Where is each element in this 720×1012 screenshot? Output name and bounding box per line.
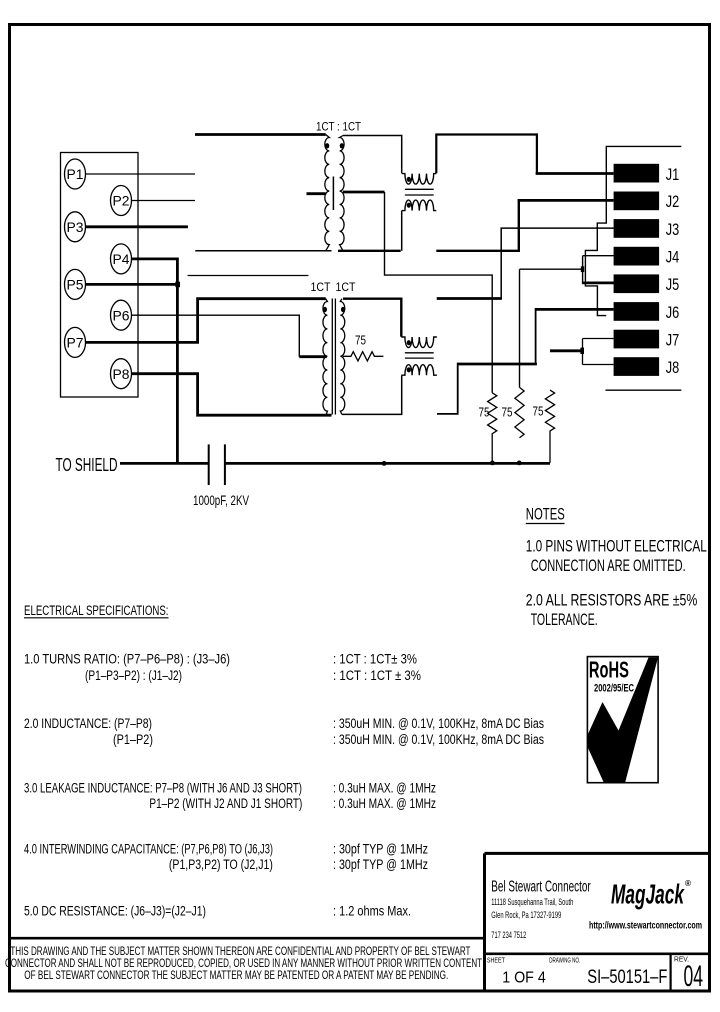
wire J2: [518, 199, 614, 202]
connector box P1-P8: [61, 153, 139, 398]
svg-text:NOTES: NOTES: [526, 505, 565, 523]
svg-text:P1–P2 (WITH J2 AND J1 SHORT): P1–P2 (WITH J2 AND J1 SHORT): [149, 796, 302, 811]
svg-text:P2: P2: [113, 194, 130, 209]
pin P3: [65, 212, 86, 242]
wire T1 primary top: [195, 133, 326, 136]
wire stub mid-left: [188, 275, 309, 277]
CH1 polarity dots: [407, 177, 411, 182]
svg-text:: 30pf TYP @ 1MHz: : 30pf TYP @ 1MHz: [333, 857, 428, 872]
pin P7: [65, 327, 86, 357]
svg-text:: 1CT : 1CT± 3%: : 1CT : 1CT± 3%: [333, 652, 417, 667]
wire P1: [86, 173, 196, 175]
svg-text:P1: P1: [67, 167, 84, 182]
svg-text:J1: J1: [666, 165, 680, 184]
svg-text:75: 75: [502, 406, 513, 420]
svg-text:75: 75: [479, 406, 490, 420]
pin P2: [111, 186, 132, 216]
pin P1: [65, 159, 86, 189]
wire J5: [582, 281, 614, 284]
svg-text:J5: J5: [666, 275, 680, 294]
wire shield left: [120, 462, 209, 465]
svg-text:DRAWING NO.: DRAWING NO.: [549, 955, 580, 964]
spec 5.0 dc resistance: [24, 904, 411, 919]
resistor R1 75: [488, 393, 497, 463]
svg-text:2002/95/EC: 2002/95/EC: [594, 683, 634, 695]
svg-text:: 1CT : 1CT ± 3%: : 1CT : 1CT ± 3%: [333, 668, 421, 683]
capacitor C1 plates: [209, 444, 225, 485]
pin P4: [111, 244, 132, 274]
svg-text:P5: P5: [67, 278, 84, 293]
svg-text:75: 75: [533, 405, 544, 419]
wire bottom box line: [606, 389, 682, 391]
resistor 75 at T2 center tap: [343, 352, 383, 361]
wire J6 tail: [437, 363, 458, 414]
wire R2 riser: [519, 269, 521, 387]
pin P6: [111, 300, 132, 330]
svg-text:P6: P6: [113, 308, 130, 323]
transformer T1 primary winding: [325, 135, 330, 251]
wire T1 primary center tap: [307, 192, 326, 195]
svg-text:(P1–P3–P2) : (J1–J2): (P1–P3–P2) : (J1–J2): [85, 668, 182, 683]
svg-text:ELECTRICAL SPECIFICATIONS:: ELECTRICAL SPECIFICATIONS:: [24, 603, 169, 618]
svg-text:4.0 INTERWINDING CAPACITANCE:: 4.0 INTERWINDING CAPACITANCE: (P7,P6,P8)…: [24, 842, 273, 857]
RoHS logo box: [587, 657, 658, 783]
wire T1 secondary bottom to choke: [401, 211, 403, 251]
wire P5: [86, 283, 178, 286]
spec 3.0 leakage inductance: [24, 781, 436, 812]
transformer T1 core: [332, 177, 334, 211]
svg-text:1CT : 1CT: 1CT : 1CT: [316, 120, 362, 134]
wire P4 to shield: [132, 259, 178, 464]
junction J4/J5: [581, 266, 584, 272]
svg-text:P3: P3: [67, 220, 84, 235]
svg-text:P8: P8: [113, 367, 130, 382]
pin P5: [65, 269, 86, 299]
wire choke CH1 to J1: [436, 135, 537, 174]
CH2 polarity dots: [407, 340, 411, 345]
wire choke CH1 bottom to J2 riser: [436, 200, 519, 250]
wire to J4/J5 junction: [520, 268, 583, 270]
svg-text:®: ®: [685, 879, 691, 888]
svg-text:(P1,P3,P2) TO (J2,J1): (P1,P3,P2) TO (J2,J1): [169, 857, 273, 872]
svg-text:: 0.3uH MAX. @ 1MHz: : 0.3uH MAX. @ 1MHz: [333, 781, 436, 796]
transformer T1 secondary winding: [340, 136, 345, 251]
svg-text:J7: J7: [666, 330, 680, 349]
svg-text:SHEET: SHEET: [487, 955, 505, 964]
wire P3: [86, 225, 188, 228]
wire J4: [583, 255, 614, 257]
wire T2 secondary top to choke CH2: [343, 299, 401, 337]
choke CH2 top winding: [401, 337, 437, 348]
wire J1: [536, 172, 614, 175]
svg-text:J3: J3: [666, 220, 680, 239]
junction shield at R1: [490, 461, 495, 466]
svg-text:TO SHIELD: TO SHIELD: [56, 455, 118, 475]
svg-text:11118 Susquehanna Trail, South: 11118 Susquehanna Trail, South: [491, 897, 573, 908]
wire to choke CH2 top right: [437, 297, 502, 300]
svg-text:1CT: 1CT: [311, 280, 332, 294]
disclaimer box top: [8, 937, 485, 940]
svg-text:J2: J2: [666, 192, 680, 211]
svg-text:3.0 LEAKAGE INDUCTANCE: P7–: 3.0 LEAKAGE INDUCTANCE: P7–P8 (WITH J6 A…: [24, 781, 302, 796]
wire J7/J8 bracket: [582, 339, 584, 365]
svg-text:: 1.2 ohms Max.: : 1.2 ohms Max.: [333, 904, 411, 919]
svg-text:J6: J6: [666, 303, 680, 322]
wire J7: [583, 338, 614, 340]
svg-text:1000pF, 2KV: 1000pF, 2KV: [193, 492, 249, 508]
svg-text:J8: J8: [666, 358, 680, 377]
T1 polarity dots: [325, 143, 329, 148]
wire J7/J8 stub: [550, 349, 582, 352]
svg-text:717 234 7512: 717 234 7512: [491, 930, 526, 941]
wire J3: [501, 228, 613, 298]
jack pads J1-J8: [614, 164, 660, 376]
wire T2 secondary bottom to choke CH2: [342, 376, 402, 415]
svg-text:RoHS: RoHS: [589, 657, 629, 683]
wire top box line and zigzag to J6 area: [585, 146, 681, 315]
svg-text:2.0 ALL RESISTORS ARE ±5%: 2.0 ALL RESISTORS ARE ±5%: [526, 592, 698, 610]
junction shield at x384: [382, 461, 387, 466]
wire P7 to T2 primary top: [86, 299, 326, 343]
pin P8: [111, 359, 132, 389]
svg-text:: 350uH MIN. @ 0.1V, 100KHz,: : 350uH MIN. @ 0.1V, 100KHz, 8mA DC Bias: [333, 716, 544, 731]
spec 2.0 inductance: [24, 716, 544, 747]
transformer T2 secondary winding: [340, 299, 345, 415]
disclaimer text: [5, 944, 482, 982]
svg-text:SI–50151–F: SI–50151–F: [587, 967, 667, 988]
resistor R2 75: [515, 387, 524, 437]
choke CH1 bottom winding: [402, 200, 437, 211]
svg-text:04: 04: [684, 960, 704, 993]
RoHS checkmark: [588, 658, 658, 784]
wire P8 to T2 primary bottom: [132, 374, 332, 416]
spec 4.0 interwinding capacitance: [24, 842, 428, 873]
wire T1 secondary center tap: [343, 191, 385, 194]
T2 polarity dots: [323, 307, 327, 312]
svg-text:http://www.stewartconnector.co: http://www.stewartconnector.com: [589, 920, 702, 932]
svg-text:J4: J4: [666, 248, 680, 267]
svg-text:2.0 INDUCTANCE: (P7–P8): 2.0 INDUCTANCE: (P7–P8): [24, 716, 152, 731]
svg-text:5.0 DC RESISTANCE: (J6–J3)=(J: 5.0 DC RESISTANCE: (J6–J3)=(J2–J1): [24, 904, 206, 919]
svg-text:75: 75: [355, 334, 366, 348]
svg-text:TOLERANCE.: TOLERANCE.: [531, 611, 598, 629]
wire shield right: [225, 462, 550, 465]
spec 1.0 turns ratio: [24, 652, 421, 684]
svg-text:OF BEL STEWART CONNECTOR THE: OF BEL STEWART CONNECTOR THE SUBJECT MAT…: [24, 968, 448, 982]
svg-text:: 350uH MIN. @ 0.1V, 100KHz,: : 350uH MIN. @ 0.1V, 100KHz, 8mA DC Bias: [333, 732, 544, 747]
transformer T2 core: [332, 299, 335, 415]
junction J7/J8: [580, 348, 584, 354]
choke CH2 core: [405, 353, 434, 358]
svg-text:1.0 TURNS RATIO: (P7–P6–P8): 1.0 TURNS RATIO: (P7–P6–P8) : (J3–J6): [24, 652, 230, 667]
junction P4/P5: [175, 282, 180, 288]
svg-text:1.0 PINS WITHOUT ELECTRICAL: 1.0 PINS WITHOUT ELECTRICAL: [526, 538, 707, 556]
svg-text:1 OF 4: 1 OF 4: [502, 970, 546, 987]
wire T1 bottom right: [338, 250, 401, 252]
svg-text:: 30pf TYP @ 1MHz: : 30pf TYP @ 1MHz: [333, 842, 428, 857]
choke CH1 top winding: [402, 174, 437, 185]
transformer T2 primary winding: [323, 299, 328, 416]
svg-text:Bel Stewart Connector: Bel Stewart Connector: [491, 879, 590, 896]
svg-text:: 0.3uH MAX. @ 1MHz: : 0.3uH MAX. @ 1MHz: [333, 796, 436, 811]
wire J8: [583, 364, 614, 366]
svg-text:P7: P7: [67, 336, 84, 351]
svg-text:Glen Rock, Pa 17327-9199: Glen Rock, Pa 17327-9199: [491, 910, 561, 921]
wire J6: [536, 308, 614, 311]
wire P6 to T2 center tap: [132, 315, 300, 357]
wire T1 bottom left: [195, 250, 331, 252]
resistor R3 75: [545, 390, 554, 463]
choke CH2 bottom winding: [401, 365, 437, 376]
svg-text:1CT: 1CT: [336, 280, 357, 294]
svg-text:MagJack: MagJack: [611, 879, 685, 910]
title block frame: [485, 853, 711, 991]
wire J4/J5 bracket: [582, 256, 584, 283]
wire T2 primary center tap: [299, 355, 327, 358]
svg-text:(P1–P2): (P1–P2): [113, 732, 153, 747]
wire T1 secondary top to choke: [343, 136, 402, 174]
choke CH1 core: [405, 189, 434, 195]
svg-text:CONNECTION ARE OMITTED.: CONNECTION ARE OMITTED.: [531, 557, 686, 575]
junction shield at R2: [517, 461, 522, 466]
wire P2: [132, 200, 196, 202]
wire T1 center tap to R1: [385, 192, 493, 393]
svg-text:P4: P4: [113, 252, 131, 267]
jack labels J1-J8: [666, 165, 680, 377]
